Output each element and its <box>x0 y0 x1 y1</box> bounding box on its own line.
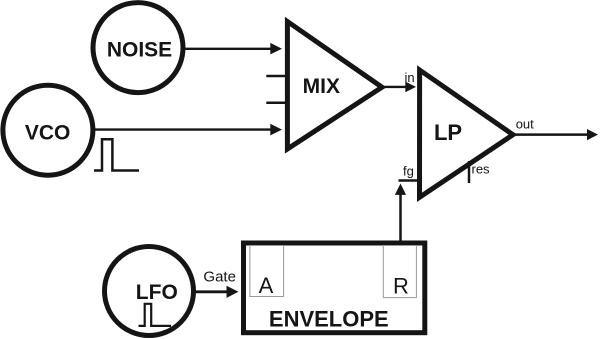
mixer MIX <box>287 22 382 150</box>
wire VCO to MIX <box>93 128 271 130</box>
svg-text:MIX: MIX <box>303 75 340 98</box>
pin tick res <box>468 161 471 183</box>
attack segment box A <box>250 246 284 297</box>
wire ENVELOPE to fg <box>399 194 402 242</box>
svg-text:res: res <box>472 162 491 177</box>
svg-text:R: R <box>393 273 409 298</box>
svg-text:Gate: Gate <box>203 268 236 285</box>
release segment box R <box>383 246 416 298</box>
wire LFO to ENVELOPE <box>194 290 228 293</box>
svg-text:NOISE: NOISE <box>107 39 172 62</box>
MIX input stub lower <box>266 101 288 104</box>
oscillator VCO <box>3 85 93 175</box>
svg-text:VCO: VCO <box>25 122 71 145</box>
MIX input stub upper <box>266 75 288 78</box>
oscillator LFO <box>105 247 194 336</box>
oscillator NOISE <box>93 3 183 93</box>
pulse waveform in LFO <box>139 304 172 326</box>
svg-text:fg: fg <box>403 164 414 179</box>
wire MIX to LP <box>384 86 406 88</box>
pin stub fg <box>399 179 420 182</box>
wire NOISE to MIX <box>184 48 271 50</box>
svg-text:LP: LP <box>434 120 462 145</box>
svg-text:A: A <box>259 273 274 298</box>
svg-text:ENVELOPE: ENVELOPE <box>269 307 389 332</box>
svg-text:in: in <box>405 70 415 85</box>
svg-text:out: out <box>516 116 534 131</box>
pulse waveform at VCO output <box>94 139 139 170</box>
envelope generator box <box>244 243 425 333</box>
svg-text:LFO: LFO <box>136 281 178 304</box>
wire LP output <box>514 133 588 136</box>
filter LP <box>420 70 514 197</box>
